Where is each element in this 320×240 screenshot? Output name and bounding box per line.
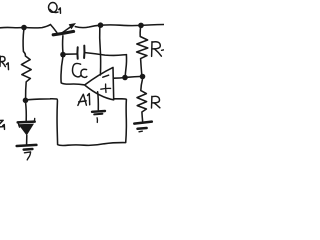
wire op-amp ground pin	[97, 92, 100, 110]
label Z1	[0, 120, 5, 129]
label Q1	[49, 3, 61, 14]
wire Cc left lead	[66, 53, 77, 55]
wire minus input	[114, 76, 143, 78]
capacitor Cc left plate	[76, 47, 78, 59]
capacitor Cc right plate	[83, 46, 85, 58]
node R1 bottom junction	[23, 98, 29, 104]
node minus junction	[122, 75, 128, 81]
transistor Q1 base bar	[53, 31, 73, 34]
plus sign	[101, 84, 111, 92]
wire top-left rail	[0, 25, 51, 28]
node R junction	[138, 23, 144, 29]
wire R1 to zener	[25, 103, 28, 121]
op-amp A1	[85, 67, 114, 99]
node base-Cc junction	[60, 52, 66, 58]
wire Cc right lead	[85, 53, 126, 56]
wire op-amp output to Cc	[61, 57, 84, 85]
resistor R1	[21, 30, 31, 98]
ground under R lower	[134, 122, 152, 124]
wire supply to op-amp	[99, 28, 102, 76]
resistor R lower	[137, 80, 147, 121]
wire feedback loop	[29, 99, 127, 146]
label Cc	[72, 63, 86, 77]
zener Z1 cathode bar	[18, 120, 35, 123]
transistor Q1 emitter with arrow	[62, 26, 72, 33]
ground under Z1	[17, 145, 37, 146]
node top-left junction	[21, 25, 27, 31]
label A1	[78, 94, 90, 106]
resistor R upper	[137, 28, 148, 74]
label R1	[0, 56, 9, 69]
minus sign	[103, 75, 109, 77]
wire top-right rail	[75, 25, 164, 28]
label R upper	[152, 42, 165, 57]
node R bottom junction	[140, 74, 146, 80]
transistor Q1 collector lead	[51, 25, 57, 33]
wire down to minus node	[125, 55, 126, 77]
zener Z1 body	[18, 124, 34, 136]
wire Q1 base lead	[62, 36, 64, 53]
ground under op-amp	[92, 110, 105, 113]
node supply junction	[98, 22, 104, 28]
label R lower	[152, 96, 160, 108]
